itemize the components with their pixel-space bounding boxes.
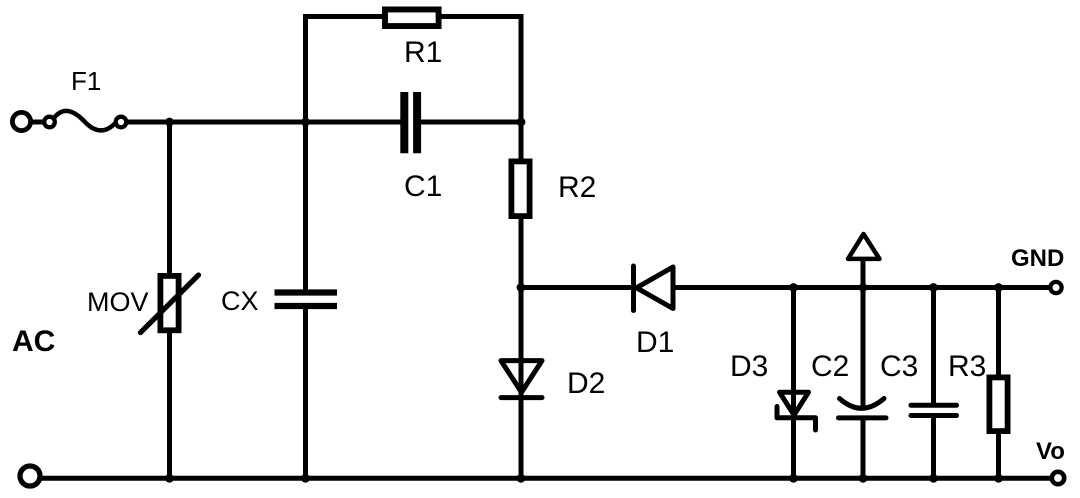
wire D3 lower bbox=[791, 418, 796, 479]
svg-text:C3: C3 bbox=[880, 350, 918, 383]
svg-text:AC: AC bbox=[12, 325, 55, 358]
capacitor C2 polarized bbox=[839, 399, 887, 418]
svg-text:GND: GND bbox=[1011, 245, 1064, 272]
node junction bottom C2 bbox=[859, 474, 868, 483]
terminal AC bottom bbox=[20, 466, 40, 486]
terminal AC top bbox=[12, 112, 45, 130]
svg-text:Vo: Vo bbox=[1036, 438, 1065, 465]
wire MOV branch lower bbox=[167, 333, 172, 479]
svg-text:CX: CX bbox=[221, 286, 259, 316]
node junction C1/R2 bbox=[517, 118, 526, 127]
svg-text:R3: R3 bbox=[948, 350, 986, 383]
fuse F1 bbox=[44, 111, 126, 130]
wire C3 upper bbox=[931, 288, 936, 404]
resistor R2 bbox=[511, 161, 529, 216]
node junction bottom D2 bbox=[517, 474, 526, 483]
svg-text:C2: C2 bbox=[811, 350, 849, 383]
terminal GND bbox=[1050, 282, 1061, 293]
wire right vertical upper bbox=[519, 14, 524, 159]
svg-text:D1: D1 bbox=[636, 326, 674, 359]
node junction bottom MOV bbox=[165, 474, 174, 483]
wire left vertical of R1 loop / CX upper bbox=[303, 14, 308, 290]
svg-text:R2: R2 bbox=[558, 171, 596, 204]
svg-text:D2: D2 bbox=[567, 367, 605, 400]
wire R2 lower to bottom bbox=[519, 219, 524, 478]
diode D1 bbox=[634, 266, 674, 311]
resistor R3 bbox=[989, 377, 1007, 431]
node junction GND/D3 bbox=[789, 283, 798, 292]
wire main horizontal from fuse to C1 bbox=[126, 120, 401, 125]
wire MOV branch upper bbox=[167, 122, 172, 275]
resistor R1 bbox=[385, 9, 439, 26]
node junction GND/C2 bbox=[859, 283, 868, 292]
svg-text:F1: F1 bbox=[71, 66, 101, 96]
node junction bottom CX bbox=[301, 474, 310, 483]
node junction bottom C3 bbox=[929, 474, 938, 483]
node junction R2/D1 bbox=[517, 283, 526, 292]
wire D1 to GND terminal bbox=[673, 285, 1049, 290]
capacitor CX bbox=[275, 293, 338, 307]
svg-text:D3: D3 bbox=[730, 350, 768, 383]
node junction bottom R3 bbox=[994, 474, 1003, 483]
zener diode D3 bbox=[777, 392, 816, 430]
terminal Vo bbox=[1052, 472, 1064, 484]
wire C2 upper bbox=[861, 288, 866, 407]
wire D3 upper bbox=[791, 288, 796, 415]
node junction bottom D3 bbox=[789, 474, 798, 483]
wire D1 left segment bbox=[521, 285, 634, 290]
wire top right segment bbox=[441, 14, 524, 19]
wire C2 lower bbox=[861, 418, 866, 478]
wire bottom rail bbox=[41, 476, 1051, 481]
node junction GND/C3 bbox=[929, 283, 938, 292]
capacitor C1 bbox=[404, 92, 417, 153]
diode D2 bbox=[501, 361, 542, 398]
wire C3 lower bbox=[931, 418, 936, 479]
wire C1 to node bbox=[421, 120, 523, 125]
wire top left segment bbox=[303, 14, 383, 19]
varistor MOV bbox=[141, 275, 199, 333]
wire R3 upper bbox=[996, 288, 1001, 377]
capacitor C3 bbox=[911, 405, 957, 415]
wire R3 lower bbox=[996, 433, 1001, 478]
node junction GND/R3 bbox=[994, 283, 1003, 292]
node junction main/CX bbox=[301, 118, 310, 127]
svg-text:C1: C1 bbox=[404, 170, 442, 203]
arrow symbol above C2 bbox=[848, 234, 880, 288]
node junction main/MOV bbox=[165, 118, 174, 127]
svg-text:R1: R1 bbox=[404, 36, 442, 69]
svg-text:MOV: MOV bbox=[87, 287, 149, 317]
wire CX branch lower bbox=[303, 309, 308, 478]
